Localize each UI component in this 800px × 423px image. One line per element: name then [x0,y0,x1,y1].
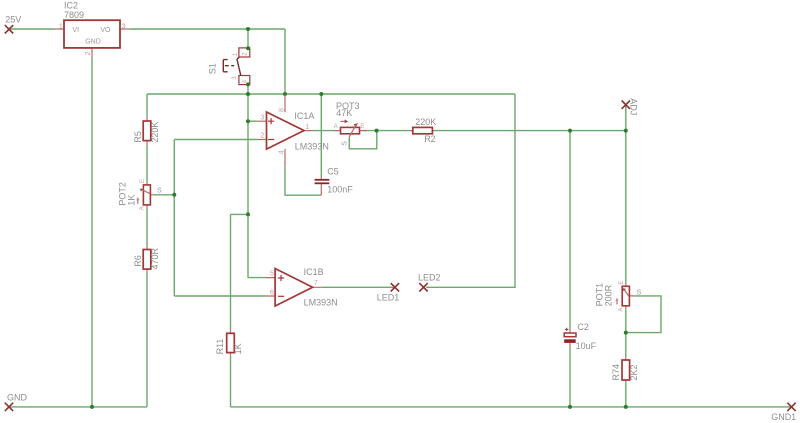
wire POT1 to R74 [625,309,627,356]
svg-text:2: 2 [260,133,264,140]
svg-text:220K: 220K [415,117,436,127]
wire IC1B out to LED1 [322,286,392,288]
svg-text:R5: R5 [133,131,143,143]
junction S1 pin2 [246,46,250,50]
svg-text:LED1: LED1 [377,293,400,303]
wire right vertical to LED2 [426,94,515,287]
wire R5 top [146,94,148,117]
svg-text:R6: R6 [133,255,143,267]
port ADJ [622,98,639,115]
switch S1 [208,48,250,85]
wire C2 column bottom [569,347,571,407]
svg-text:47K: 47K [336,108,352,118]
resistor R2 220K [409,117,436,144]
svg-text:200R: 200R [604,284,614,306]
svg-text:R11: R11 [215,339,225,355]
svg-text:LED2: LED2 [418,272,441,282]
svg-text:4: 4 [278,150,285,154]
wire IC2 GND down [91,57,93,407]
svg-text:VO: VO [100,27,111,34]
wire C5 top to rail [320,94,322,177]
svg-text:R2: R2 [424,134,436,144]
svg-text:LM393N: LM393N [295,141,329,151]
wire VO to S1 branch and V+ corner [129,28,285,30]
wire R6 to GND rail [146,273,148,407]
wire R74 to GND1 rail [625,384,627,407]
junction IC2 GND rail [90,405,94,409]
wire C2 column top [569,131,571,329]
svg-text:E: E [140,179,146,183]
junction POT3 E [375,129,379,133]
port LED1 [377,283,400,303]
junction node 214 [246,212,250,216]
port LED2 [418,272,441,291]
wire branch down to S1 pin2 [247,29,249,48]
svg-text:IC1B: IC1B [304,267,324,277]
svg-text:C2: C2 [577,322,589,332]
wire IC1A pin2 [174,139,257,141]
svg-text:E: E [360,124,364,130]
junction S1 pin4 [246,82,250,86]
resistor R11 1K [215,330,243,356]
svg-text:R74: R74 [611,364,621,381]
wire node to R11 branch [231,213,249,215]
wire S1/pin3 vertical [247,94,249,214]
op-amp IC1A LM393N [257,95,329,168]
resistor R6 470R [133,246,160,273]
svg-text:8: 8 [278,108,285,112]
junction C2 top [568,129,572,133]
wire V+ down to rail [284,29,286,94]
junction rail x285 [283,92,287,96]
svg-text:A: A [618,308,624,312]
wire node down to IC1B pin5 [248,214,266,277]
svg-text:A: A [140,206,146,210]
svg-text:ADJ: ADJ [629,98,639,115]
wire 25V to IC2 VI [9,28,55,30]
wire IC1A out to POT3 A [313,130,337,132]
svg-text:10uF: 10uF [576,341,597,351]
junction rail C5 [319,92,323,96]
wire top rail [147,93,515,95]
svg-text:GND: GND [85,38,101,45]
svg-text:1K: 1K [126,195,136,206]
svg-text:GND1: GND1 [771,412,796,422]
wire IC1A pin3 [248,120,257,122]
wire R5 to POT2 [146,145,148,182]
potentiometer POT1 200R [595,281,642,312]
wire POT3 E to R2 [363,130,409,132]
svg-text:C5: C5 [327,167,339,177]
junction R74 rail [624,405,628,409]
svg-text:25V: 25V [5,15,21,25]
wire POT1 wiper loop [626,296,661,333]
wire S1 pin4 to rail [247,85,249,94]
wire R11 to GND1 rail [230,356,232,407]
svg-text:S1: S1 [208,63,218,74]
resistor R5 220K [133,117,160,146]
svg-text:S: S [637,290,642,297]
port GND [5,393,28,412]
junction rail x248 [246,92,250,96]
wire to IC1B pin6 [174,295,266,297]
wire R2 to ADJ column [434,130,626,132]
svg-text:1K: 1K [233,343,243,354]
svg-text:5: 5 [270,271,274,278]
junction ADJ [624,129,628,133]
capacitor C2 10uF polarized [564,322,596,351]
port 25V [5,15,21,34]
wire ADJ stub [625,105,627,131]
regulator IC2 7809 [55,0,129,57]
svg-text:2: 2 [85,51,92,55]
svg-text:IC1A: IC1A [294,111,314,121]
port GND1 [771,403,796,422]
wire POT2 to R6 [146,209,148,247]
svg-text:7: 7 [314,280,318,287]
wire POT1 column top [625,131,627,283]
svg-text:7809: 7809 [64,10,84,20]
svg-text:220K: 220K [150,122,160,143]
svg-text:3: 3 [260,114,264,121]
junction C2 rail [568,405,572,409]
wire node vertical pin2 to pin6 [173,140,175,297]
svg-text:GND: GND [7,393,28,403]
svg-text:S: S [157,188,162,195]
junction VO branch [246,27,250,31]
svg-text:470R: 470R [150,247,160,269]
junction POT2 wiper [172,193,176,197]
svg-text:6: 6 [270,289,274,296]
potentiometer POT2 1K [117,179,162,210]
capacitor C5 100nF [315,167,354,196]
svg-text:3: 3 [122,23,126,30]
potentiometer POT3 47K [334,101,367,146]
wire POT3 S loop [349,131,377,149]
resistor R74 2K2 [611,357,639,384]
wire C5 bottom to IC1A pin4 [285,167,321,195]
junction IC1A pin3 [246,119,250,123]
svg-text:E: E [619,281,625,285]
svg-text:A: A [334,124,338,130]
junction POT1 bottom [624,331,628,335]
wire POT2 wiper to node [154,194,174,196]
svg-text:100nF: 100nF [327,184,353,194]
wire GND1 rail right [231,406,792,408]
svg-text:2K2: 2K2 [629,364,639,380]
svg-text:VI: VI [73,27,80,34]
wire GND rail left [9,406,147,408]
svg-text:LM393N: LM393N [304,298,338,308]
svg-text:1: 1 [305,124,309,131]
svg-text:1: 1 [59,23,63,30]
op-amp IC1B LM393N [266,267,338,307]
svg-text:S: S [342,141,349,146]
wire R11 top branch [230,214,232,330]
